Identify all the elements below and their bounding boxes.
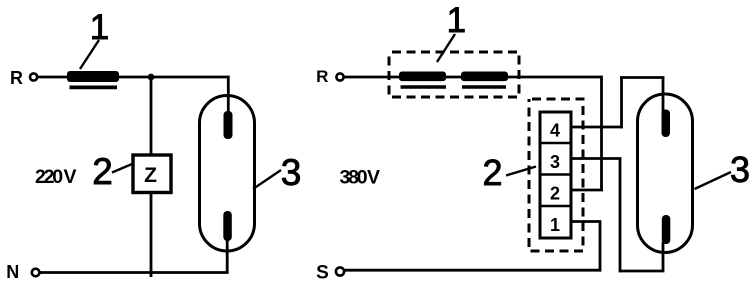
lamp top electrode: [224, 111, 233, 139]
wire N (bottom): [40, 271, 229, 274]
terminal R right (open circle): [336, 73, 343, 80]
wire terminal 1 stub: [571, 220, 601, 223]
wire R to ballast: [38, 76, 71, 79]
lamp bottom electrode: [223, 211, 232, 241]
wire lamp top lead: [227, 76, 230, 115]
svg-text:R: R: [316, 67, 328, 86]
wire riser top run to lamp: [620, 76, 664, 79]
wire S (bottom): [345, 269, 601, 272]
wire terminal 4 riser: [620, 77, 623, 128]
svg-text:R: R: [10, 68, 23, 88]
lamp top electrode lead inside: [227, 95, 230, 114]
svg-text:1: 1: [550, 215, 560, 235]
wire lamp bottom lead right: [662, 242, 665, 271]
lamp top electrode right: [662, 110, 671, 138]
choke core line B: [462, 85, 506, 89]
lamp bottom electrode right: [662, 215, 671, 244]
choke winding bar A: [399, 72, 446, 82]
wire ignitor down to N wire: [150, 193, 153, 278]
lamp bulb outline (left circuit): [200, 96, 255, 252]
terminal strip divider 3/2: [540, 173, 571, 176]
leader line label 1: [80, 40, 99, 69]
wire lamp bottom lead: [226, 230, 229, 273]
leader line label 3 left: [253, 170, 281, 189]
svg-text:3: 3: [281, 152, 302, 193]
wire terminal 2 stub: [571, 189, 603, 192]
terminal strip divider 2/1: [540, 205, 571, 208]
wire R to ballast assembly: [344, 76, 602, 79]
svg-text:2: 2: [92, 151, 113, 192]
wire bottom run to lamp: [620, 270, 664, 273]
wire lamp top lead right: [662, 78, 665, 116]
svg-text:3: 3: [550, 152, 560, 172]
terminal S (open circle): [336, 267, 344, 275]
ballast L1 winding bar: [67, 71, 119, 82]
svg-text:2: 2: [482, 152, 502, 193]
terminal strip divider 4/3: [540, 142, 571, 145]
ignitor Z box: [133, 155, 171, 193]
choke core line A: [401, 85, 447, 89]
svg-text:380V: 380V: [340, 167, 380, 189]
svg-text:220V: 220V: [35, 166, 76, 188]
terminal R (open circle): [30, 73, 37, 80]
dashed enclosure box 2 (ignitor terminal block): [529, 99, 583, 251]
wire ballast to lamp (top): [119, 76, 229, 79]
svg-text:Z: Z: [144, 164, 157, 187]
dashed enclosure box 1 (ballast assembly): [389, 52, 519, 97]
svg-text:2: 2: [550, 184, 560, 204]
svg-text:3: 3: [730, 149, 750, 190]
lamp top electrode lead inside right: [662, 94, 665, 113]
leader line label 2 right: [506, 167, 536, 176]
svg-text:N: N: [6, 262, 19, 282]
wire terminal 3 stub: [571, 157, 621, 160]
lamp bottom electrode lead inside: [226, 238, 229, 252]
lamp bottom electrode lead inside right: [662, 242, 665, 253]
lamp bulb outline (right circuit): [638, 94, 693, 253]
choke winding bar B: [461, 72, 508, 82]
svg-text:1: 1: [447, 1, 466, 40]
leader line label 2: [112, 164, 132, 173]
wire terminal 4 stub: [571, 126, 623, 129]
leader line label 1 right: [437, 34, 455, 62]
ballast L1 core line: [70, 86, 118, 90]
leader line label 3 right: [695, 172, 732, 189]
wire ballast descender to terminal 2: [600, 76, 603, 190]
terminal strip outline: [540, 112, 571, 238]
wire terminal 1 descender to S: [599, 222, 602, 271]
wire junction down to ignitor: [150, 77, 153, 155]
terminal N (open circle): [32, 269, 40, 277]
svg-text:4: 4: [550, 121, 560, 141]
svg-text:S: S: [316, 263, 329, 284]
wire terminal 3 descender: [619, 159, 622, 273]
junction node at ignitor branch: [148, 74, 155, 81]
